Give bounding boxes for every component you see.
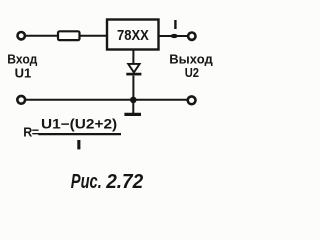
current direction mark — [171, 34, 178, 38]
label I (current) — [174, 20, 176, 29]
bottom-right terminal — [188, 96, 196, 104]
regulator U 78XX box — [107, 20, 159, 50]
svg-text:78XX: 78XX — [117, 27, 149, 44]
ground — [124, 100, 141, 114]
diode VD — [126, 64, 141, 74]
wire diode to ground rail — [132, 76, 134, 100]
wire resistor to regulator — [80, 35, 107, 37]
bottom-left terminal — [17, 96, 25, 104]
svg-text:U1−(U2+2): U1−(U2+2) — [41, 116, 117, 131]
svg-text:2.72: 2.72 — [105, 171, 143, 193]
svg-text:U1: U1 — [15, 65, 32, 80]
svg-text:Выход: Выход — [169, 52, 213, 67]
wire regulator common pin down — [132, 50, 134, 65]
wire input to resistor — [26, 35, 58, 37]
formula R = (U1-(U2+2))/I — [23, 116, 121, 149]
wire regulator to output — [159, 35, 188, 37]
bottom rail wire — [26, 99, 188, 101]
output terminal — [188, 33, 195, 40]
caption Рис. 2.72 — [71, 171, 143, 193]
junction node — [130, 97, 137, 104]
svg-text:U2: U2 — [185, 66, 199, 80]
resistor R — [58, 31, 80, 40]
svg-text:Рис.: Рис. — [71, 171, 102, 193]
input terminal — [18, 32, 25, 39]
svg-text:R=: R= — [23, 125, 38, 139]
